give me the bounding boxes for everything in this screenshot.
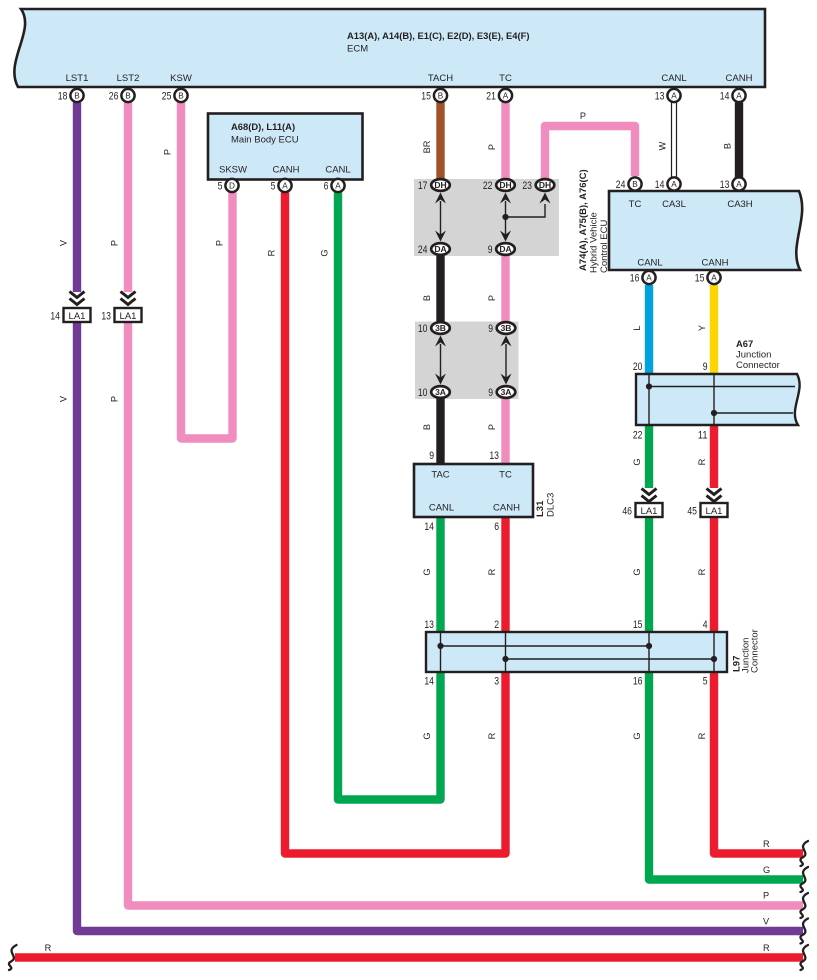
junction dot A67 CANH: [711, 410, 717, 416]
wire BR from ECM TACH to shield 17DH: [436, 103, 444, 182]
junction dot L97 pin4: [711, 656, 717, 662]
svg-text:Main Body ECU: Main Body ECU: [231, 135, 299, 146]
shield drain line 17DH-24DA: [440, 201, 442, 236]
pin 14(A) CA3L: [655, 177, 681, 191]
svg-text:P: P: [580, 111, 586, 121]
shield ground box 1 (DH/DA): [414, 179, 559, 256]
svg-text:DA: DA: [499, 244, 511, 254]
connector arrows LA1 13: [121, 292, 136, 305]
Main Body ECU pin labels: [219, 165, 351, 176]
svg-text:13: 13: [720, 179, 730, 191]
L97 pin numbers: [424, 619, 707, 688]
svg-text:G: G: [632, 568, 642, 575]
svg-text:G: G: [422, 732, 432, 739]
svg-text:R: R: [697, 568, 707, 575]
svg-text:Connector: Connector: [750, 629, 761, 673]
svg-text:CANH: CANH: [702, 258, 729, 269]
wire W from ECM CANL to Hybrid CA3L (white): [671, 103, 677, 178]
wire Y from Hybrid CANH to A67 pin 9: [710, 285, 718, 375]
svg-text:CANH: CANH: [726, 73, 753, 84]
svg-text:P: P: [487, 424, 497, 430]
svg-text:R: R: [697, 458, 707, 465]
svg-text:Y: Y: [697, 325, 707, 331]
pin 13(A) CANL: [655, 89, 681, 103]
svg-text:R: R: [487, 568, 497, 575]
continuation mark V right: [800, 919, 808, 944]
shield pin 10(3A): [418, 386, 450, 399]
continuation mark R right: [800, 841, 808, 866]
svg-text:11: 11: [698, 430, 708, 442]
shield pin 17(DH): [418, 179, 450, 192]
svg-text:3A: 3A: [435, 387, 446, 397]
svg-text:B: B: [632, 180, 638, 189]
svg-text:25: 25: [162, 91, 172, 103]
pin 25(B) KSW: [162, 89, 188, 103]
shield pin 9(DA): [488, 243, 515, 256]
svg-text:W: W: [658, 141, 668, 150]
L97 rotated label: [732, 629, 761, 673]
ECM title: [347, 30, 530, 55]
svg-text:Control ECU: Control ECU: [599, 220, 610, 273]
wire P from ECM TC to shield 22DH: [501, 103, 509, 182]
svg-text:G: G: [632, 732, 642, 739]
svg-text:R: R: [45, 943, 52, 953]
Hybrid ECU pin labels: [629, 199, 753, 269]
ECU box ECM A13/A14/E1-E4: [14, 9, 765, 87]
svg-text:14: 14: [655, 179, 665, 191]
svg-text:A: A: [335, 182, 341, 191]
wire G from A67 pin 22 to LA1: [645, 424, 653, 488]
svg-text:CANH: CANH: [493, 503, 520, 514]
svg-text:15: 15: [633, 619, 643, 631]
pin 5(A) CANH: [271, 179, 292, 193]
wire R from L97 pin 5 to right edge: [714, 672, 803, 854]
svg-text:22: 22: [633, 430, 643, 442]
svg-text:G: G: [763, 865, 770, 875]
svg-text:B: B: [723, 143, 733, 149]
svg-text:46: 46: [622, 506, 632, 518]
ECM pin labels: [66, 73, 753, 84]
junction dot A67 CANL: [646, 383, 652, 389]
svg-text:P: P: [163, 149, 173, 155]
svg-text:Junction: Junction: [736, 350, 771, 361]
svg-text:B: B: [125, 92, 131, 101]
svg-text:16: 16: [630, 273, 640, 285]
svg-text:24: 24: [418, 244, 428, 256]
svg-text:16: 16: [633, 676, 643, 688]
svg-text:A: A: [711, 274, 717, 283]
svg-text:A13(A), A14(B), E1(C), E2(D),: A13(A), A14(B), E1(C), E2(D), E3(E), E4(…: [347, 30, 530, 41]
wire R from L97 pin 2 to DLC3 CANH: [501, 517, 509, 632]
junction dot L97 pin2: [502, 656, 508, 662]
pin 18(B) LST1: [58, 89, 84, 103]
shield pin 9(3B): [488, 322, 515, 335]
shield pin 24(DA): [418, 243, 450, 256]
pin 21(A) TC: [486, 89, 512, 103]
svg-text:P: P: [487, 295, 497, 301]
DLC3 pin numbers: [424, 450, 499, 533]
svg-text:4: 4: [703, 619, 708, 631]
svg-text:CA3H: CA3H: [727, 199, 752, 210]
shield pin 10(3B): [418, 322, 450, 335]
svg-text:A: A: [282, 182, 288, 191]
svg-text:SKSW: SKSW: [219, 165, 247, 176]
wire P from 9-3A to DLC3 TC: [501, 396, 509, 464]
svg-text:10: 10: [418, 323, 428, 335]
wire V from LA1 to right edge: [77, 322, 803, 931]
svg-text:A67: A67: [736, 338, 753, 349]
svg-text:P: P: [110, 396, 120, 402]
continuation mark G right: [800, 867, 808, 892]
svg-text:5: 5: [703, 676, 708, 688]
svg-text:A: A: [646, 274, 652, 283]
continuation mark P right: [800, 893, 808, 918]
svg-text:15: 15: [695, 273, 705, 285]
junction connector A67 box: [636, 374, 800, 425]
svg-text:DH: DH: [539, 180, 551, 190]
svg-text:10: 10: [418, 387, 428, 399]
connector box L31 DLC3: [414, 464, 533, 517]
svg-text:B: B: [178, 92, 184, 101]
svg-text:14: 14: [50, 311, 60, 323]
svg-text:CA3L: CA3L: [662, 199, 686, 210]
svg-text:TC: TC: [499, 470, 512, 481]
svg-text:3B: 3B: [435, 323, 446, 333]
pin 13(A) CA3H: [720, 177, 746, 191]
pin 14(A) CANH: [720, 89, 746, 103]
svg-text:B: B: [74, 92, 80, 101]
junction connector L97 box: [426, 632, 727, 672]
svg-text:TACH: TACH: [428, 73, 453, 84]
shield drain line 10-3B to 10-3A: [440, 344, 442, 378]
wire B from 24DA to 10-3B: [436, 253, 444, 324]
svg-text:3: 3: [494, 676, 499, 688]
svg-text:P: P: [215, 240, 225, 246]
svg-text:24: 24: [616, 179, 626, 191]
svg-text:20: 20: [633, 361, 643, 373]
wire P from ECM KSW to Main Body ECU SKSW: [181, 103, 233, 439]
svg-text:V: V: [763, 917, 770, 927]
svg-text:R: R: [487, 732, 497, 739]
shield ground box 2 (3B/3A): [415, 322, 519, 400]
svg-text:26: 26: [109, 91, 119, 103]
svg-text:DH: DH: [499, 180, 511, 190]
svg-text:6: 6: [494, 521, 499, 533]
svg-text:P: P: [763, 891, 769, 901]
right edge wire labels: [763, 839, 770, 953]
L97 internal wiring: [441, 633, 715, 671]
svg-text:9: 9: [703, 361, 708, 373]
svg-text:L31: L31: [535, 500, 546, 517]
A67 internal wiring: [649, 375, 795, 424]
svg-text:CANH: CANH: [273, 165, 300, 176]
svg-text:22: 22: [483, 180, 493, 192]
svg-text:LA1: LA1: [641, 506, 658, 517]
DLC3 pin labels: [429, 470, 520, 514]
svg-text:R: R: [697, 732, 707, 739]
svg-text:CANL: CANL: [661, 73, 686, 84]
svg-text:17: 17: [418, 180, 428, 192]
wire R from A67 pin 11 to LA1: [710, 424, 718, 488]
svg-text:13: 13: [655, 91, 665, 103]
wire R from LA1 45 to L97 pin 4: [710, 517, 718, 632]
svg-text:13: 13: [101, 311, 111, 323]
svg-text:CANL: CANL: [429, 503, 454, 514]
svg-text:B: B: [438, 92, 444, 101]
svg-text:L: L: [632, 325, 642, 330]
svg-text:KSW: KSW: [170, 73, 192, 84]
svg-text:D: D: [229, 182, 235, 191]
svg-text:5: 5: [271, 181, 276, 193]
wire G from L97 pin 16 to right edge: [649, 672, 803, 880]
svg-text:B: B: [422, 295, 432, 301]
svg-text:14: 14: [424, 521, 434, 533]
DLC3 rotated title L31: [535, 493, 557, 517]
Main Body ECU title: [231, 121, 299, 146]
svg-text:LA1: LA1: [120, 311, 137, 322]
wire P from 9DA to 9-3B: [501, 253, 509, 324]
shield pin 23(DH): [522, 179, 554, 192]
connector arrows LA1 14: [70, 292, 85, 305]
svg-text:3A: 3A: [501, 387, 512, 397]
svg-text:DH: DH: [434, 180, 446, 190]
shield pin 22(DH): [483, 179, 515, 192]
svg-text:LA1: LA1: [706, 506, 723, 517]
svg-text:9: 9: [488, 387, 493, 399]
svg-text:DLC3: DLC3: [546, 493, 557, 517]
svg-text:A: A: [671, 180, 677, 189]
svg-text:A: A: [736, 92, 742, 101]
svg-text:BR: BR: [422, 140, 432, 153]
pin 16(A) CANL hybrid: [630, 271, 656, 285]
svg-text:A74(A), A75(B), A76(C): A74(A), A75(B), A76(C): [578, 169, 589, 271]
continuation mark R left bottom: [9, 945, 17, 970]
pin 5(D) SKSW: [218, 179, 239, 193]
ECU box Main Body ECU A68/L11: [208, 114, 363, 180]
wire R along bottom edge: [15, 953, 803, 961]
svg-text:LST1: LST1: [66, 73, 89, 84]
wire B from 10-3A to DLC3 TAC: [436, 396, 444, 464]
shield pin 9(3A): [488, 386, 515, 399]
junction dot L97 pin13: [437, 643, 443, 649]
svg-text:P: P: [487, 144, 497, 150]
wire V from ECM LST1 to LA1: [73, 103, 81, 293]
svg-text:A: A: [671, 92, 677, 101]
ECU box Hybrid Vehicle Control ECU A74/A75/A76: [609, 191, 802, 270]
svg-text:9: 9: [488, 323, 493, 335]
svg-text:Hybrid Vehicle: Hybrid Vehicle: [589, 212, 600, 273]
svg-text:ECM: ECM: [347, 44, 368, 55]
wire R from Main Body ECU CANH to L97 pin 3: [285, 193, 506, 854]
wire G from LA1 46 to L97 pin 15: [645, 517, 653, 632]
svg-text:G: G: [422, 568, 432, 575]
wire B from ECM CANH to Hybrid CA3H: [735, 103, 743, 178]
svg-text:LA1: LA1: [69, 311, 86, 322]
svg-text:G: G: [320, 249, 330, 256]
svg-text:9: 9: [429, 450, 434, 462]
svg-text:R: R: [763, 839, 770, 849]
svg-text:TC: TC: [499, 73, 512, 84]
svg-text:5: 5: [218, 181, 223, 193]
svg-text:A: A: [503, 92, 509, 101]
continuation mark R right bottom: [800, 945, 808, 970]
A67 pin numbers: [633, 361, 708, 442]
wire P from shield 23DH to Hybrid Vehicle Control ECU TC: [545, 126, 635, 181]
svg-text:3B: 3B: [501, 323, 512, 333]
pin 15(B) TACH: [421, 89, 447, 103]
svg-text:18: 18: [58, 91, 68, 103]
pin 6(A) CANL: [324, 179, 345, 193]
wire P from ECM LST2 to LA1: [124, 103, 132, 293]
svg-text:Connector: Connector: [736, 360, 780, 371]
svg-text:P: P: [110, 240, 120, 246]
svg-text:13: 13: [424, 619, 434, 631]
svg-text:DA: DA: [434, 244, 446, 254]
svg-text:23: 23: [522, 180, 532, 192]
svg-text:CANL: CANL: [637, 258, 662, 269]
wire L from Hybrid CANL to A67 pin 20: [645, 285, 653, 375]
pin 26(B) LST2: [109, 89, 135, 103]
svg-text:V: V: [59, 395, 69, 402]
svg-text:15: 15: [421, 91, 431, 103]
svg-text:G: G: [632, 458, 642, 465]
svg-text:CANL: CANL: [325, 165, 350, 176]
junction dot shield branch: [502, 214, 508, 220]
svg-text:2: 2: [494, 619, 499, 631]
svg-text:14: 14: [720, 91, 730, 103]
pin 15(A) CANH hybrid: [695, 271, 721, 285]
svg-text:B: B: [422, 424, 432, 430]
svg-text:9: 9: [488, 244, 493, 256]
svg-text:13: 13: [489, 450, 499, 462]
svg-text:14: 14: [424, 676, 434, 688]
shield drain line 22DH-9DA with branch to 23DH: [505, 201, 507, 236]
svg-text:A68(D), L11(A): A68(D), L11(A): [231, 121, 295, 132]
connector arrows LA1 46: [642, 489, 657, 502]
wire P from LA1 to right edge: [128, 322, 803, 906]
svg-text:6: 6: [324, 181, 329, 193]
svg-text:TC: TC: [629, 199, 642, 210]
wire G from L97 pin 13 to DLC3 CANL: [436, 517, 444, 632]
pin 24(B) TC hybrid: [616, 177, 642, 191]
junction dot L97 pin15: [646, 643, 652, 649]
wire G from Main Body ECU CANL to L97 pin 14: [338, 193, 441, 800]
svg-text:LST2: LST2: [117, 73, 140, 84]
svg-text:V: V: [59, 239, 69, 246]
svg-text:R: R: [763, 943, 770, 953]
svg-text:A: A: [736, 180, 742, 189]
svg-text:21: 21: [486, 91, 496, 103]
shield drain line 9-3B to 9-3A: [505, 344, 507, 378]
wire colour labels (rotated): [59, 140, 733, 739]
svg-text:45: 45: [687, 506, 697, 518]
svg-text:TAC: TAC: [431, 470, 449, 481]
connector arrows LA1 45: [707, 489, 722, 502]
svg-text:R: R: [267, 249, 277, 256]
Hybrid Vehicle Control ECU rotated title: [578, 169, 610, 273]
A67 label: [736, 338, 780, 371]
